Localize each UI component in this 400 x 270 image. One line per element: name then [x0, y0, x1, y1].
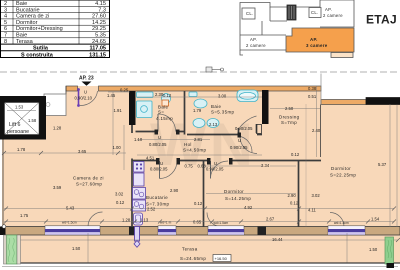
svg-text:1.50: 1.50 — [72, 246, 81, 251]
svg-text:S=5.35mp: S=5.35mp — [211, 110, 234, 115]
svg-text:0.68: 0.68 — [198, 164, 207, 169]
svg-text:1.54: 1.54 — [371, 217, 380, 222]
svg-text:3.65: 3.65 — [78, 149, 87, 154]
svg-text:1.13: 1.13 — [140, 218, 149, 223]
svg-text:4: 4 — [4, 14, 7, 20]
svg-text:Dormitor: Dormitor — [16, 20, 38, 26]
svg-text:Dormitor: Dormitor — [331, 166, 351, 171]
svg-text:0.75: 0.75 — [185, 164, 194, 169]
svg-text:U: U — [214, 161, 217, 166]
svg-text:6: 6 — [4, 26, 7, 32]
svg-text:0.12: 0.12 — [163, 93, 172, 98]
svg-text:2.81: 2.81 — [194, 137, 203, 142]
svg-text:Dormitor: Dormitor — [224, 189, 244, 194]
svg-text:5.35: 5.35 — [95, 33, 106, 39]
svg-text:0.12: 0.12 — [194, 201, 203, 206]
svg-text:Camera de zi: Camera de zi — [73, 176, 104, 181]
svg-text:Baie: Baie — [16, 1, 27, 7]
svg-text:5.43: 5.43 — [66, 206, 75, 211]
svg-text:0.90/2.05: 0.90/2.05 — [206, 167, 224, 172]
svg-text:AP.: AP. — [250, 37, 257, 42]
svg-text:2 camere: 2 camere — [323, 13, 343, 18]
svg-text:0.25: 0.25 — [120, 88, 129, 93]
svg-text:7.3: 7.3 — [98, 7, 106, 13]
svg-text:Terasa: Terasa — [16, 39, 34, 45]
svg-text:ETAJ: ETAJ — [366, 13, 397, 27]
svg-text:S=4.50mp: S=4.50mp — [183, 148, 206, 153]
svg-text:0.12: 0.12 — [116, 200, 125, 205]
svg-text:0.80/2.05: 0.80/2.05 — [149, 142, 167, 147]
svg-text:S=27.60mp: S=27.60mp — [76, 182, 102, 187]
svg-text:1.50: 1.50 — [369, 247, 378, 252]
svg-text:4.11: 4.11 — [308, 208, 317, 213]
svg-text:4.92: 4.92 — [244, 205, 253, 210]
svg-text:1.00: 1.00 — [113, 145, 122, 150]
svg-text:CL.: CL. — [246, 11, 253, 16]
svg-text:S=14.25mp: S=14.25mp — [225, 196, 251, 201]
svg-text:Bucatarie: Bucatarie — [146, 195, 168, 200]
svg-text:3.59: 3.59 — [53, 185, 62, 190]
svg-text:2.52: 2.52 — [147, 207, 156, 212]
svg-text:5: 5 — [4, 20, 7, 26]
svg-text:AP. 23: AP. 23 — [79, 76, 94, 82]
svg-text:3: 3 — [4, 7, 7, 13]
svg-text:3 camere: 3 camere — [306, 43, 328, 48]
svg-text:Bucatarie: Bucatarie — [16, 7, 40, 13]
svg-text:1.28: 1.28 — [53, 126, 62, 131]
svg-text:U: U — [158, 135, 161, 140]
svg-text:Lift 6: Lift 6 — [9, 122, 21, 128]
svg-text:29.25: 29.25 — [92, 26, 106, 32]
svg-text:Baie: Baie — [16, 33, 27, 39]
svg-text:CL.: CL. — [311, 10, 318, 15]
svg-text:3.34: 3.34 — [261, 163, 270, 168]
svg-text:2 camere: 2 camere — [246, 43, 266, 48]
svg-text:5.37: 5.37 — [378, 162, 387, 167]
svg-text:0.65: 0.65 — [193, 220, 202, 225]
svg-text:2.40: 2.40 — [312, 128, 321, 133]
svg-text:persoane: persoane — [7, 129, 29, 135]
svg-text:S=22.25mp: S=22.25mp — [330, 173, 356, 178]
svg-text:1.91: 1.91 — [114, 108, 123, 113]
svg-text:AP.: AP. — [325, 7, 332, 12]
svg-text:Dressing: Dressing — [279, 115, 300, 120]
svg-text:0.51: 0.51 — [308, 94, 317, 99]
svg-text:+16.50: +16.50 — [215, 256, 228, 261]
svg-text:Hol: Hol — [184, 142, 192, 147]
svg-text:27.60: 27.60 — [92, 14, 106, 20]
svg-text:wd=1.5cm: wd=1.5cm — [62, 221, 77, 225]
svg-text:3.02: 3.02 — [115, 192, 124, 197]
svg-text:2.90: 2.90 — [288, 193, 297, 198]
svg-text:Dormitor+Dressing: Dormitor+Dressing — [16, 26, 63, 32]
svg-text:1.78: 1.78 — [17, 147, 26, 152]
svg-text:1.79: 1.79 — [193, 108, 202, 113]
svg-text:Camera de zi: Camera de zi — [16, 14, 49, 20]
svg-text:S construita: S construita — [21, 52, 54, 58]
svg-text:2.67: 2.67 — [266, 217, 275, 222]
svg-text:7: 7 — [4, 33, 7, 39]
svg-text:0.12: 0.12 — [290, 201, 299, 206]
svg-text:S=24.65mp: S=24.65mp — [180, 256, 206, 261]
svg-text:117.05: 117.05 — [89, 46, 106, 52]
svg-text:0.38: 0.38 — [308, 86, 317, 91]
svg-text:2.90: 2.90 — [170, 188, 179, 193]
svg-text:S=7mp: S=7mp — [281, 120, 297, 125]
svg-text:24.65: 24.65 — [92, 39, 106, 45]
svg-text:0.90/2.05: 0.90/2.05 — [230, 145, 248, 150]
svg-text:S=7.30mp: S=7.30mp — [146, 202, 169, 207]
svg-text:1.53: 1.53 — [15, 105, 24, 110]
svg-text:2: 2 — [4, 1, 7, 7]
svg-text:4.51: 4.51 — [146, 156, 155, 161]
svg-text:wd=1 m: wd=1 m — [160, 221, 172, 225]
svg-text:0.80/2.05: 0.80/2.05 — [150, 167, 168, 172]
svg-text:4.15mp: 4.15mp — [156, 116, 173, 121]
svg-text:1.28: 1.28 — [122, 218, 131, 223]
svg-text:S=: S= — [158, 110, 164, 115]
svg-text:U: U — [160, 161, 163, 166]
svg-text:2.13: 2.13 — [209, 122, 218, 127]
svg-text:Baie: Baie — [211, 104, 222, 109]
svg-text:Sutila: Sutila — [33, 46, 49, 52]
svg-text:3.02: 3.02 — [312, 193, 321, 198]
svg-text:3.00: 3.00 — [218, 94, 227, 99]
svg-text:U: U — [84, 90, 87, 95]
svg-text:Terasa: Terasa — [182, 247, 198, 252]
svg-text:AP.: AP. — [310, 37, 318, 42]
svg-text:1.75: 1.75 — [20, 213, 29, 218]
svg-text:1.58: 1.58 — [28, 118, 37, 123]
svg-text:14.25: 14.25 — [92, 20, 106, 26]
svg-text:4.15: 4.15 — [95, 1, 106, 7]
svg-text:0.90/2.05: 0.90/2.05 — [235, 126, 253, 131]
svg-text:U: U — [238, 138, 241, 143]
svg-text:131.15: 131.15 — [89, 52, 106, 58]
svg-text:8: 8 — [4, 39, 7, 45]
svg-text:2.50: 2.50 — [285, 106, 294, 111]
svg-text:0.90/2.10: 0.90/2.10 — [75, 96, 93, 101]
svg-text:0.12: 0.12 — [291, 152, 300, 157]
svg-text:16.44: 16.44 — [272, 237, 283, 242]
svg-text:1.10: 1.10 — [134, 137, 143, 142]
svg-text:1.45: 1.45 — [107, 93, 116, 98]
